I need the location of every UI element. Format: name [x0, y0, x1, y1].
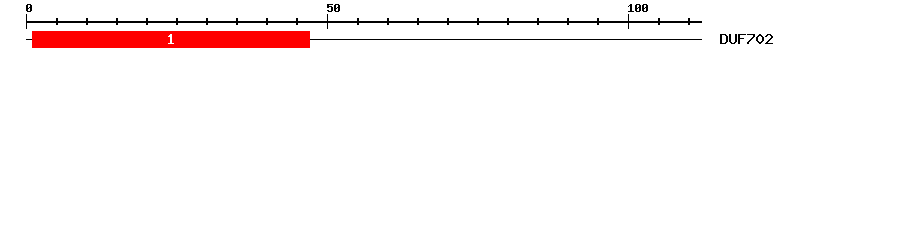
- domain name label DUF702: [720, 34, 773, 44]
- protein backbone line right segment: [310, 39, 702, 40]
- ruler label 0: [26, 4, 32, 12]
- ruler minor ticks: [56, 18, 690, 25]
- ruler major tick 100: [628, 14, 629, 29]
- ruler line: [26, 21, 702, 23]
- protein backbone line left segment: [26, 39, 32, 40]
- ruler label 50: [327, 4, 340, 12]
- domain number 1: [168, 34, 174, 44]
- ruler major tick 50: [327, 14, 328, 29]
- ruler major tick 0: [26, 14, 27, 29]
- ruler label 100: [628, 4, 648, 12]
- domain box DUF702 (residues 1-47): [32, 31, 310, 48]
